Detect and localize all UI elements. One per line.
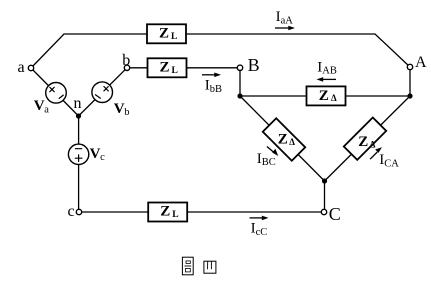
wire a to Va to n [31,68,79,116]
svg-text:Z: Z [160,59,170,75]
svg-text:Δ: Δ [289,137,295,147]
delta right junction dot [407,93,412,98]
svg-text:AB: AB [322,66,337,77]
node C terminal circle [321,209,326,214]
svg-text:Z: Z [278,132,288,148]
label current IaA [276,9,294,26]
svg-text:bB: bB [210,84,222,95]
svg-text:C: C [329,204,341,224]
label Va value [34,98,50,115]
node A terminal circle [407,64,412,69]
svg-text:c: c [100,152,105,163]
wire A down to delta right junction [409,67,411,96]
wire b to Vb to n [79,68,128,116]
svg-text:a: a [18,59,25,76]
svg-text:B: B [248,55,260,75]
delta bottom junction dot [322,178,327,183]
wire b to ZL2 to B [127,67,240,69]
node b terminal circle [124,65,129,70]
svg-text:L: L [172,66,178,76]
label node C [329,204,341,224]
wire B down to delta left junction [239,68,241,96]
svg-text:n: n [74,95,82,112]
wire a to top-left bend to ZL1 to top-right bend to A [31,34,410,68]
voltage source Va circle [46,83,67,104]
label Vb value [114,101,130,118]
node a terminal circle [28,65,33,70]
svg-text:L: L [172,210,178,220]
svg-text:L: L [171,32,177,42]
svg-text:V: V [114,101,125,117]
svg-text:Δ: Δ [370,139,376,149]
wire delta left side through Zdelta2 [240,96,325,181]
voltage source Vc circle [68,144,88,164]
label node c [68,203,75,220]
svg-text:b: b [124,107,129,118]
label node n [74,95,82,112]
label current IAB [317,59,337,76]
svg-text:a: a [44,104,49,115]
svg-text:Δ: Δ [331,93,337,103]
impedance Zdelta2 box (delta left diagonal) [263,118,305,160]
label current ICA [379,152,399,169]
svg-text:b: b [122,52,130,69]
impedance Zdelta1 box (delta top, between B and A junctions) [307,86,346,105]
label node B [248,55,260,75]
caption figure four (drawn glyphs) [182,257,216,275]
label Vc value [90,146,106,163]
current arrow IcC [250,216,269,221]
label current IbB [205,78,222,95]
label current IcC [251,221,268,238]
impedance ZL3 box (line c-C) [148,203,187,222]
svg-text:A: A [415,54,427,71]
svg-text:V: V [90,146,101,162]
svg-text:Z: Z [159,25,169,41]
svg-text:CA: CA [384,158,399,169]
node B terminal circle [237,65,242,70]
current arrow IBC (down-right along delta left side) [267,147,278,157]
current arrow IaA [275,26,295,31]
wire delta bottom junction down to C [324,181,326,212]
svg-text:Z: Z [358,134,368,150]
current arrow ICA (up-right along delta right side) [370,147,382,159]
voltage source Vb circle [92,82,113,103]
impedance ZL2 box (line b-B) [148,58,187,77]
label node b [122,52,130,69]
label node A [415,54,427,71]
delta left junction dot [237,93,242,98]
wire delta top side through Zdelta1 [240,95,410,97]
node n junction dot [76,113,81,118]
svg-text:cC: cC [256,227,268,238]
wire n to Vc to c [78,116,80,212]
current arrow IbB [202,73,221,78]
impedance ZL1 box (line a-A) [147,24,186,43]
current arrow IAB (pointing left) [317,77,337,82]
svg-text:c: c [68,203,75,220]
svg-text:Z: Z [319,88,329,104]
label current IBC [257,151,276,168]
label node a [18,59,25,76]
svg-text:BC: BC [262,157,276,168]
node c terminal circle [76,209,81,214]
svg-text:Z: Z [160,204,170,220]
svg-text:V: V [34,98,45,114]
impedance Zdelta3 box (delta right diagonal) [344,117,386,159]
svg-text:aA: aA [281,15,294,26]
wire delta right side through Zdelta3 [325,96,411,181]
wire c to ZL3 to C [79,211,324,213]
